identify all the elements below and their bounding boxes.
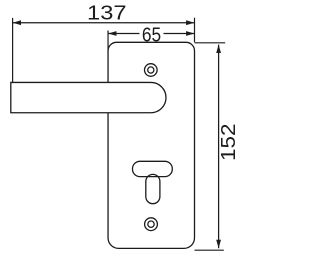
extension line: plate right edge extended up xyxy=(194,18,196,43)
extension line: 152 right of plate bottom xyxy=(195,249,224,251)
arrowhead 65 right xyxy=(186,31,194,36)
arrowhead 65 left xyxy=(108,31,116,36)
top screw xyxy=(145,64,158,77)
keyhole stem xyxy=(146,174,160,203)
extension line: 65 left (plate left edge extended up) xyxy=(107,31,109,53)
svg-text:152: 152 xyxy=(218,123,240,161)
arrowhead 137 left xyxy=(13,20,21,25)
keyhole escutcheon slot xyxy=(133,161,173,176)
extension line: 152 right of plate top xyxy=(195,42,226,44)
arrowhead 152 top xyxy=(216,45,221,53)
dimension line 65 (broken by text) xyxy=(108,33,139,35)
dimension line 137 xyxy=(13,22,195,24)
bottom screw xyxy=(145,218,158,231)
svg-text:137: 137 xyxy=(87,2,127,25)
dimension line 152 xyxy=(218,45,220,249)
lever handle xyxy=(11,82,166,112)
backplate xyxy=(108,42,194,248)
extension line: handle left edge extended up xyxy=(12,18,14,83)
arrowhead 152 bottom xyxy=(216,240,221,248)
svg-text:65: 65 xyxy=(142,24,161,46)
arrowhead 137 right xyxy=(186,20,194,25)
